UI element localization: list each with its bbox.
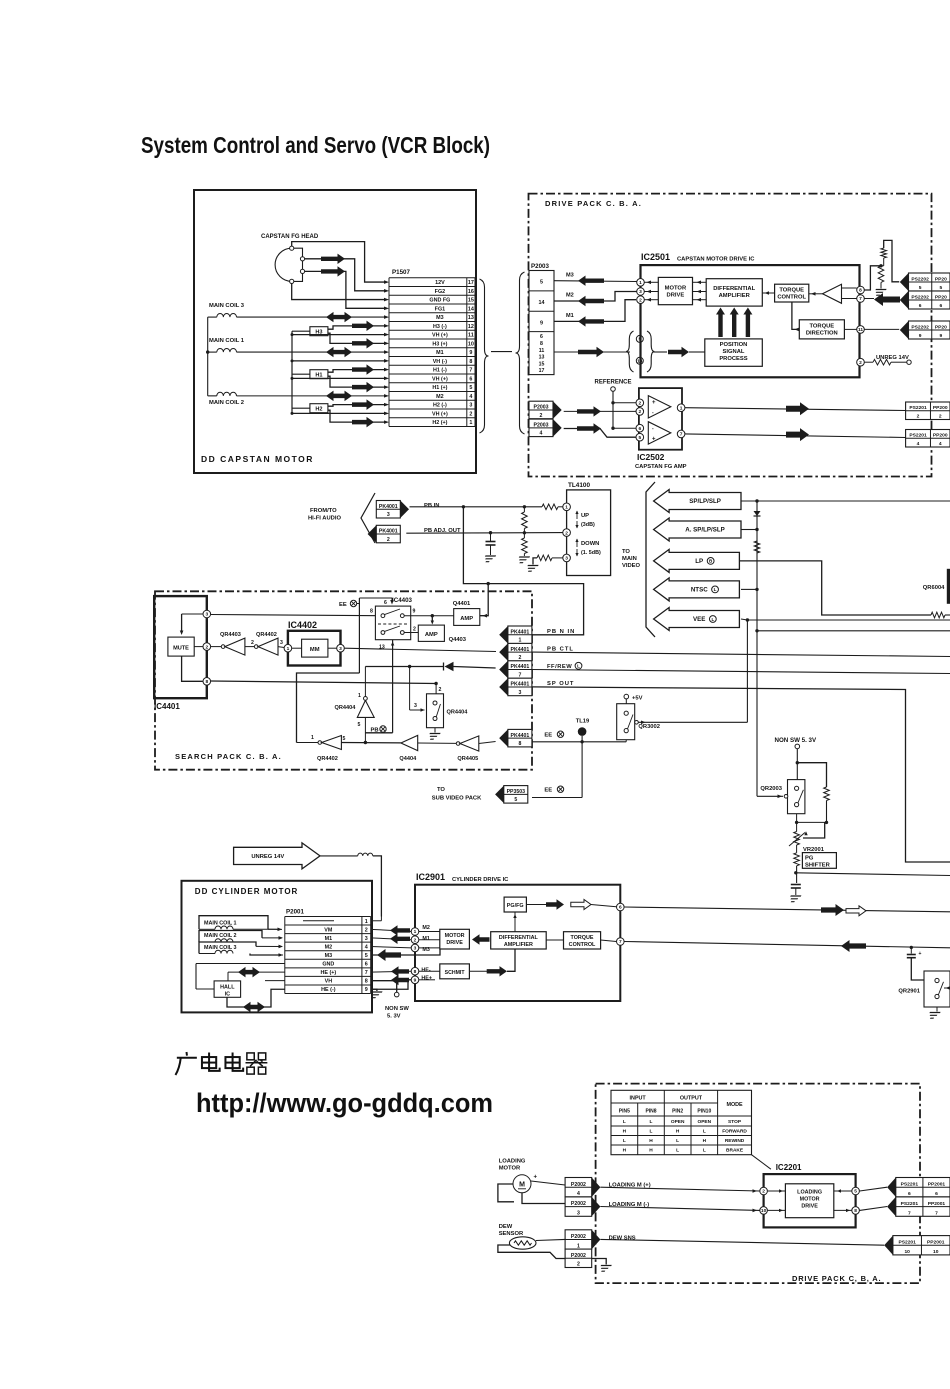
svg-text:PG/FG: PG/FG bbox=[507, 903, 524, 909]
svg-text:M: M bbox=[519, 1182, 525, 1189]
svg-text:10: 10 bbox=[933, 1249, 939, 1255]
svg-text:L: L bbox=[676, 1138, 679, 1144]
svg-text:3: 3 bbox=[280, 640, 283, 646]
svg-text:IC2501: IC2501 bbox=[641, 252, 670, 262]
svg-text:P2001: P2001 bbox=[286, 909, 304, 916]
svg-text:M3: M3 bbox=[325, 953, 333, 959]
svg-text:3: 3 bbox=[414, 703, 417, 709]
svg-text:VIDEO: VIDEO bbox=[622, 563, 641, 569]
svg-text:8: 8 bbox=[205, 679, 208, 685]
svg-text:10: 10 bbox=[761, 1208, 767, 1214]
svg-text:17: 17 bbox=[539, 368, 545, 374]
svg-text:VH (-): VH (-) bbox=[433, 359, 448, 365]
svg-text:QR4402: QR4402 bbox=[317, 756, 338, 762]
svg-text:3: 3 bbox=[414, 946, 417, 952]
svg-text:6: 6 bbox=[365, 962, 368, 968]
svg-text:6: 6 bbox=[919, 303, 922, 309]
svg-text:PROCESS: PROCESS bbox=[719, 356, 747, 362]
svg-text:FROM/TO: FROM/TO bbox=[310, 508, 337, 514]
svg-text:M1: M1 bbox=[436, 350, 444, 356]
svg-text:H2 (-): H2 (-) bbox=[433, 403, 447, 409]
svg-text:+: + bbox=[919, 951, 922, 957]
svg-text:+5V: +5V bbox=[632, 696, 643, 702]
svg-text:QR3002: QR3002 bbox=[638, 724, 660, 730]
svg-text:8: 8 bbox=[469, 359, 472, 365]
svg-text:PB: PB bbox=[371, 728, 379, 734]
svg-text:1: 1 bbox=[565, 505, 568, 511]
svg-text:7: 7 bbox=[859, 296, 862, 302]
svg-text:H: H bbox=[623, 1129, 627, 1135]
svg-text:1: 1 bbox=[680, 405, 683, 411]
svg-text:MAIN COIL 3: MAIN COIL 3 bbox=[204, 945, 237, 951]
svg-text:2: 2 bbox=[762, 1189, 765, 1195]
svg-text:PK4401: PK4401 bbox=[511, 733, 530, 739]
svg-text:8: 8 bbox=[370, 609, 373, 615]
svg-text:7: 7 bbox=[908, 1210, 911, 1216]
svg-text:LOADING: LOADING bbox=[499, 1159, 526, 1165]
svg-text:HE (+): HE (+) bbox=[320, 970, 336, 976]
svg-text:9: 9 bbox=[413, 609, 416, 615]
svg-text:DRIVE: DRIVE bbox=[801, 1204, 818, 1210]
svg-text:EE: EE bbox=[339, 602, 347, 608]
svg-text:7: 7 bbox=[680, 432, 683, 438]
svg-text:PK4401: PK4401 bbox=[511, 629, 530, 635]
svg-text:2: 2 bbox=[540, 413, 543, 419]
svg-text:2: 2 bbox=[365, 927, 368, 933]
svg-text:M1: M1 bbox=[422, 936, 430, 942]
svg-text:H3 (+): H3 (+) bbox=[432, 341, 447, 347]
svg-text:DIFFERENTIAL: DIFFERENTIAL bbox=[713, 286, 755, 292]
svg-text:5: 5 bbox=[365, 953, 368, 959]
svg-text:FORWARD: FORWARD bbox=[722, 1129, 747, 1135]
svg-text:PK4401: PK4401 bbox=[511, 682, 530, 688]
svg-text:MOTOR: MOTOR bbox=[499, 1166, 521, 1172]
svg-text:16: 16 bbox=[468, 289, 474, 295]
svg-text:L: L bbox=[650, 1119, 653, 1125]
svg-text:1: 1 bbox=[287, 646, 290, 652]
svg-text:VH: VH bbox=[325, 979, 333, 985]
svg-text:OUTPUT: OUTPUT bbox=[680, 1096, 703, 1102]
svg-text:5: 5 bbox=[638, 435, 641, 441]
svg-text:MAIN COIL 1: MAIN COIL 1 bbox=[204, 921, 237, 927]
svg-text:L: L bbox=[577, 664, 580, 669]
svg-text:QR4404: QR4404 bbox=[335, 705, 357, 711]
svg-text:12: 12 bbox=[468, 324, 474, 330]
svg-text:MODE: MODE bbox=[726, 1102, 743, 1108]
svg-text:H: H bbox=[676, 1129, 680, 1135]
svg-text:DIRECTION: DIRECTION bbox=[806, 331, 838, 337]
svg-text:PP3503: PP3503 bbox=[507, 789, 526, 795]
svg-text:(3dB): (3dB) bbox=[581, 522, 595, 528]
svg-text:MAIN COIL 1: MAIN COIL 1 bbox=[209, 338, 245, 344]
svg-text:L: L bbox=[623, 1138, 626, 1144]
svg-text:5: 5 bbox=[514, 797, 517, 803]
svg-text:15: 15 bbox=[539, 361, 545, 367]
svg-text:FG1: FG1 bbox=[435, 306, 445, 312]
svg-text:PIN8: PIN8 bbox=[645, 1109, 656, 1115]
svg-text:3: 3 bbox=[365, 936, 368, 942]
svg-text:P2003: P2003 bbox=[531, 263, 549, 270]
svg-text:PS2202: PS2202 bbox=[911, 294, 929, 300]
svg-text:PS2201: PS2201 bbox=[901, 1182, 919, 1188]
svg-text:2: 2 bbox=[518, 655, 521, 661]
svg-text:M2: M2 bbox=[325, 944, 333, 950]
svg-text:4: 4 bbox=[577, 1191, 580, 1197]
svg-text:QR4404: QR4404 bbox=[447, 710, 469, 716]
svg-text:5: 5 bbox=[540, 280, 543, 286]
svg-text:REFERENCE: REFERENCE bbox=[595, 380, 632, 386]
svg-text:8: 8 bbox=[518, 741, 521, 747]
svg-text:8: 8 bbox=[540, 341, 543, 347]
svg-text:P2002: P2002 bbox=[571, 1201, 586, 1207]
svg-text:NTSC: NTSC bbox=[691, 587, 708, 594]
svg-text:13: 13 bbox=[468, 315, 474, 321]
svg-text:2: 2 bbox=[205, 644, 208, 650]
svg-text:QR2901: QR2901 bbox=[898, 989, 920, 995]
svg-text:CONTROL: CONTROL bbox=[777, 295, 806, 301]
svg-text:QR4405: QR4405 bbox=[457, 756, 478, 762]
svg-text:H2 (+): H2 (+) bbox=[432, 420, 447, 426]
svg-text:7: 7 bbox=[935, 1210, 938, 1216]
svg-text:PP20: PP20 bbox=[935, 276, 947, 282]
svg-text:2: 2 bbox=[639, 297, 642, 303]
svg-text:HE (-): HE (-) bbox=[321, 987, 336, 993]
svg-text:QR4402: QR4402 bbox=[256, 632, 277, 638]
svg-text:8: 8 bbox=[859, 288, 862, 294]
svg-text:H: H bbox=[649, 1138, 653, 1144]
svg-text:L: L bbox=[623, 1119, 626, 1125]
svg-text:FG2: FG2 bbox=[435, 289, 445, 295]
svg-text:AMPLIFIER: AMPLIFIER bbox=[504, 942, 533, 948]
svg-text:IC4402: IC4402 bbox=[288, 620, 317, 630]
svg-text:PB N IN: PB N IN bbox=[547, 629, 575, 635]
svg-text:H2: H2 bbox=[315, 407, 322, 413]
svg-text:P2002: P2002 bbox=[571, 1253, 586, 1259]
svg-text:VH (+): VH (+) bbox=[432, 333, 448, 339]
svg-text:10: 10 bbox=[468, 341, 474, 347]
svg-text:3: 3 bbox=[339, 646, 342, 652]
svg-text:QR4403: QR4403 bbox=[220, 632, 241, 638]
svg-text:2: 2 bbox=[577, 1262, 580, 1268]
svg-text:VH (+): VH (+) bbox=[432, 376, 448, 382]
svg-text:MAIN COIL 3: MAIN COIL 3 bbox=[209, 303, 245, 309]
svg-text:AMP: AMP bbox=[460, 616, 473, 622]
svg-text:CAPSTAN FG HEAD: CAPSTAN FG HEAD bbox=[261, 234, 319, 240]
svg-text:TO: TO bbox=[437, 787, 445, 793]
svg-text:PK4401: PK4401 bbox=[511, 647, 530, 653]
svg-text:QR6004: QR6004 bbox=[923, 585, 945, 591]
svg-text:System Control and Servo (VCR: System Control and Servo (VCR Block) bbox=[141, 132, 490, 158]
svg-text:BRAKE: BRAKE bbox=[726, 1148, 744, 1154]
svg-text:LOADING: LOADING bbox=[797, 1190, 822, 1196]
svg-text:5: 5 bbox=[343, 736, 346, 742]
svg-text:9: 9 bbox=[469, 350, 472, 356]
svg-text:1: 1 bbox=[311, 735, 314, 741]
svg-text:LP: LP bbox=[695, 558, 703, 565]
svg-text:P1507: P1507 bbox=[392, 269, 410, 276]
svg-text:SIGNAL: SIGNAL bbox=[723, 349, 745, 355]
svg-text:A. SP/LP/SLP: A. SP/LP/SLP bbox=[685, 527, 725, 534]
svg-text:PB CTL: PB CTL bbox=[547, 647, 574, 653]
svg-text:TORQUE: TORQUE bbox=[809, 324, 834, 330]
svg-text:FF/REW: FF/REW bbox=[547, 664, 572, 670]
svg-text:DEW: DEW bbox=[499, 1224, 513, 1230]
svg-text:1: 1 bbox=[469, 420, 472, 426]
svg-text:1: 1 bbox=[414, 929, 417, 935]
svg-text:4: 4 bbox=[540, 431, 543, 437]
svg-text:2: 2 bbox=[939, 414, 942, 420]
svg-text:PIN2: PIN2 bbox=[672, 1109, 683, 1115]
svg-text:NON SW: NON SW bbox=[385, 1006, 409, 1012]
svg-text:PK4001: PK4001 bbox=[379, 504, 398, 510]
svg-text:10: 10 bbox=[904, 1249, 910, 1255]
svg-text:4: 4 bbox=[365, 944, 368, 950]
svg-text:MAIN COIL 2: MAIN COIL 2 bbox=[209, 400, 244, 406]
svg-text:7: 7 bbox=[469, 368, 472, 374]
svg-text:PP2001: PP2001 bbox=[928, 1201, 946, 1207]
svg-text:http://www.go-gddq.com: http://www.go-gddq.com bbox=[196, 1088, 493, 1118]
svg-text:H1 (+): H1 (+) bbox=[432, 385, 447, 391]
svg-text:9: 9 bbox=[414, 978, 417, 984]
svg-text:+: + bbox=[652, 437, 656, 443]
svg-text:DRIVE PACK C. B. A.: DRIVE PACK C. B. A. bbox=[545, 199, 642, 208]
svg-text:M1: M1 bbox=[566, 313, 574, 319]
svg-text:PS2201: PS2201 bbox=[898, 1240, 916, 1246]
svg-text:P2002: P2002 bbox=[571, 1234, 586, 1240]
svg-text:PS2201: PS2201 bbox=[909, 433, 927, 439]
svg-text:2: 2 bbox=[387, 537, 390, 543]
svg-text:L: L bbox=[676, 1148, 679, 1154]
svg-text:H3 (-): H3 (-) bbox=[433, 324, 447, 330]
svg-text:(1. 5dB): (1. 5dB) bbox=[581, 550, 601, 556]
svg-text:2: 2 bbox=[251, 640, 254, 646]
svg-text:OPEN: OPEN bbox=[697, 1119, 711, 1125]
svg-text:15: 15 bbox=[468, 298, 474, 304]
svg-text:7: 7 bbox=[365, 970, 368, 976]
svg-text:IC4403: IC4403 bbox=[392, 597, 413, 604]
svg-text:VM: VM bbox=[324, 927, 333, 933]
svg-text:HE+: HE+ bbox=[421, 976, 432, 982]
svg-text:9: 9 bbox=[940, 333, 943, 339]
svg-text:12V: 12V bbox=[435, 280, 445, 286]
svg-text:3: 3 bbox=[577, 1210, 580, 1216]
svg-text:SUB VIDEO PACK: SUB VIDEO PACK bbox=[432, 796, 482, 802]
svg-text:DD CYLINDER MOTOR: DD CYLINDER MOTOR bbox=[195, 887, 299, 896]
svg-text:DRIVE: DRIVE bbox=[446, 940, 463, 946]
svg-text:3: 3 bbox=[387, 512, 390, 518]
svg-text:P2002: P2002 bbox=[571, 1182, 586, 1188]
svg-text:DRIVE PACK C, B, A.: DRIVE PACK C, B, A. bbox=[792, 1274, 881, 1283]
svg-text:SENSOR: SENSOR bbox=[499, 1231, 524, 1237]
svg-text:1: 1 bbox=[358, 693, 361, 699]
svg-text:6: 6 bbox=[619, 905, 622, 911]
svg-text:IC2502: IC2502 bbox=[637, 452, 665, 462]
svg-text:PP2001: PP2001 bbox=[927, 1240, 945, 1246]
svg-text:EE: EE bbox=[544, 788, 552, 794]
svg-text:H1 (-): H1 (-) bbox=[433, 368, 447, 374]
svg-text:3: 3 bbox=[518, 690, 521, 696]
svg-text:5: 5 bbox=[919, 285, 922, 291]
svg-text:6: 6 bbox=[540, 334, 543, 340]
svg-text:8: 8 bbox=[854, 1208, 857, 1214]
svg-text:DRIVE: DRIVE bbox=[667, 293, 685, 299]
svg-text:M3: M3 bbox=[566, 273, 574, 279]
svg-text:MOTOR: MOTOR bbox=[665, 286, 687, 292]
svg-text:M2: M2 bbox=[436, 394, 444, 400]
svg-text:13: 13 bbox=[379, 645, 385, 651]
svg-text:SP OUT: SP OUT bbox=[547, 681, 574, 687]
svg-text:VEE: VEE bbox=[693, 616, 705, 623]
svg-text:2: 2 bbox=[638, 409, 641, 415]
svg-text:SHIFTER: SHIFTER bbox=[805, 863, 831, 869]
svg-text:H: H bbox=[623, 1148, 627, 1154]
svg-text:4: 4 bbox=[917, 441, 920, 447]
svg-text:PS2202: PS2202 bbox=[911, 324, 929, 330]
svg-text:6: 6 bbox=[935, 1191, 938, 1197]
svg-text:6: 6 bbox=[940, 303, 943, 309]
svg-text:2: 2 bbox=[469, 411, 472, 417]
svg-text:MOTOR: MOTOR bbox=[445, 933, 465, 939]
svg-text:2: 2 bbox=[414, 937, 417, 943]
svg-text:2: 2 bbox=[859, 360, 862, 366]
svg-text:L: L bbox=[714, 587, 717, 592]
svg-text:1: 1 bbox=[577, 1243, 580, 1249]
svg-text:Q4403: Q4403 bbox=[449, 637, 467, 643]
svg-text:AMPLIFIER: AMPLIFIER bbox=[719, 293, 751, 299]
svg-text:5: 5 bbox=[469, 385, 472, 391]
svg-text:EE: EE bbox=[544, 733, 552, 739]
svg-text:UNREG 14V: UNREG 14V bbox=[876, 355, 909, 361]
svg-text:1: 1 bbox=[518, 638, 521, 644]
svg-text:TL19: TL19 bbox=[576, 719, 590, 725]
svg-text:4: 4 bbox=[469, 394, 472, 400]
svg-text:VH (+): VH (+) bbox=[432, 411, 448, 417]
svg-text:2: 2 bbox=[565, 530, 568, 536]
svg-text:17: 17 bbox=[468, 280, 474, 286]
svg-text:2: 2 bbox=[638, 401, 641, 407]
svg-text:PIN10: PIN10 bbox=[697, 1109, 711, 1115]
svg-text:HI-FI AUDIO: HI-FI AUDIO bbox=[308, 516, 341, 522]
svg-text:11: 11 bbox=[858, 327, 863, 333]
svg-text:OPEN: OPEN bbox=[671, 1119, 685, 1125]
svg-text:3: 3 bbox=[205, 612, 208, 618]
svg-text:8: 8 bbox=[414, 969, 417, 975]
svg-text:11: 11 bbox=[539, 348, 545, 354]
svg-text:PG: PG bbox=[805, 855, 814, 861]
svg-text:CAPSTAN MOTOR DRIVE IC: CAPSTAN MOTOR DRIVE IC bbox=[677, 257, 755, 263]
svg-text:IC2901: IC2901 bbox=[416, 872, 445, 882]
svg-text:6: 6 bbox=[638, 426, 641, 432]
svg-text:5: 5 bbox=[358, 722, 361, 728]
svg-text:PP200: PP200 bbox=[933, 433, 948, 439]
svg-text:6: 6 bbox=[384, 600, 387, 606]
svg-text:HALL: HALL bbox=[220, 985, 235, 991]
svg-text:IC4401: IC4401 bbox=[154, 702, 180, 711]
svg-text:AMP: AMP bbox=[425, 632, 438, 638]
svg-text:L: L bbox=[703, 1148, 706, 1154]
svg-text:4: 4 bbox=[939, 441, 942, 447]
svg-text:8: 8 bbox=[365, 979, 368, 985]
svg-text:PP20: PP20 bbox=[935, 324, 947, 330]
svg-text:9: 9 bbox=[919, 333, 922, 339]
svg-text:L: L bbox=[711, 617, 714, 622]
svg-text:3: 3 bbox=[469, 403, 472, 409]
svg-text:3: 3 bbox=[565, 556, 568, 562]
svg-text:UNREG 14V: UNREG 14V bbox=[251, 854, 284, 860]
svg-text:PS2201: PS2201 bbox=[901, 1201, 919, 1207]
svg-text:INPUT: INPUT bbox=[630, 1096, 647, 1102]
svg-text:9: 9 bbox=[365, 987, 368, 993]
svg-text:H: H bbox=[649, 1148, 653, 1154]
svg-text:SEARCH PACK C. B. A.: SEARCH PACK C. B. A. bbox=[175, 752, 282, 761]
svg-text:9: 9 bbox=[540, 320, 543, 326]
svg-text:POSITION: POSITION bbox=[720, 342, 748, 348]
svg-text:+: + bbox=[652, 400, 656, 406]
svg-text:IC: IC bbox=[225, 991, 230, 997]
svg-text:DD CAPSTAN MOTOR: DD CAPSTAN MOTOR bbox=[201, 454, 314, 464]
svg-text:SP/LP/SLP: SP/LP/SLP bbox=[689, 498, 721, 505]
svg-text:14: 14 bbox=[468, 306, 474, 312]
svg-text:PB IN: PB IN bbox=[424, 503, 439, 509]
svg-text:MAIN: MAIN bbox=[622, 556, 637, 562]
svg-text:PK4401: PK4401 bbox=[511, 664, 530, 670]
svg-text:5. 3V: 5. 3V bbox=[387, 1014, 401, 1020]
svg-text:M2: M2 bbox=[566, 293, 574, 299]
svg-text:UP: UP bbox=[581, 513, 589, 519]
svg-text:7: 7 bbox=[619, 939, 622, 945]
svg-text:QR2003: QR2003 bbox=[760, 786, 782, 792]
svg-text:SCHMIT: SCHMIT bbox=[445, 970, 466, 976]
svg-text:PIN5: PIN5 bbox=[619, 1109, 630, 1115]
svg-text:PK4001: PK4001 bbox=[379, 529, 398, 535]
svg-text:P2003: P2003 bbox=[533, 422, 548, 428]
svg-text:6: 6 bbox=[908, 1191, 911, 1197]
svg-text:DIFFERENTIAL: DIFFERENTIAL bbox=[499, 935, 539, 941]
svg-text:7: 7 bbox=[518, 672, 521, 678]
svg-text:2: 2 bbox=[413, 627, 416, 633]
svg-text:L: L bbox=[703, 1129, 706, 1135]
svg-text:5: 5 bbox=[940, 285, 943, 291]
svg-text:+: + bbox=[534, 1175, 538, 1181]
svg-text:NON SW 5. 3V: NON SW 5. 3V bbox=[775, 737, 817, 744]
svg-text:CAPSTAN FG AMP: CAPSTAN FG AMP bbox=[635, 464, 687, 470]
svg-text:MUTE: MUTE bbox=[173, 646, 189, 652]
svg-text:GND: GND bbox=[322, 962, 334, 968]
svg-text:M3: M3 bbox=[436, 315, 444, 321]
svg-text:3: 3 bbox=[639, 289, 642, 295]
svg-text:TORQUE: TORQUE bbox=[571, 935, 594, 941]
svg-text:L: L bbox=[650, 1129, 653, 1135]
svg-text:6: 6 bbox=[469, 376, 472, 382]
svg-text:STOP: STOP bbox=[728, 1119, 742, 1125]
svg-text:CONTROL: CONTROL bbox=[569, 942, 596, 948]
svg-text:13: 13 bbox=[539, 355, 545, 361]
svg-text:REWIND: REWIND bbox=[725, 1138, 745, 1144]
svg-text:11: 11 bbox=[468, 333, 474, 339]
svg-text:IC2201: IC2201 bbox=[776, 1163, 802, 1172]
svg-text:14: 14 bbox=[539, 300, 545, 306]
svg-text:PP200: PP200 bbox=[933, 405, 948, 411]
svg-text:PS2202: PS2202 bbox=[911, 276, 929, 282]
svg-text:HE-: HE- bbox=[421, 968, 430, 974]
svg-text:TORQUE: TORQUE bbox=[779, 288, 804, 294]
svg-text:P2003: P2003 bbox=[533, 405, 548, 411]
svg-text:PP20: PP20 bbox=[935, 294, 947, 300]
svg-text:H: H bbox=[703, 1138, 707, 1144]
svg-text:M1: M1 bbox=[325, 936, 333, 942]
svg-text:Q4401: Q4401 bbox=[453, 601, 471, 607]
svg-text:MAIN COIL 2: MAIN COIL 2 bbox=[204, 933, 237, 939]
